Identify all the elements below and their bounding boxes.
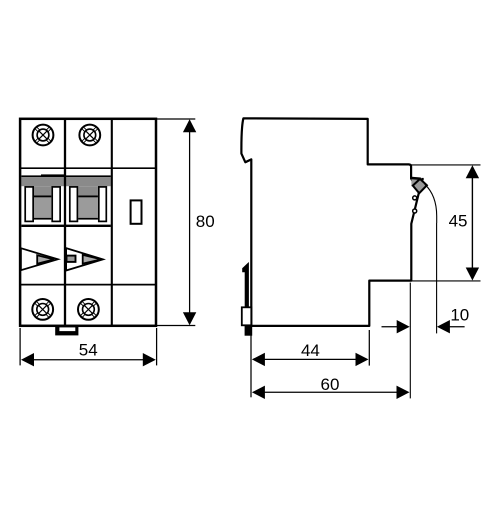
dimension 10: arrows bbox=[382, 320, 465, 333]
front view: DIN clip tab bottom bbox=[55, 326, 78, 336]
svg-text:60: 60 bbox=[321, 375, 340, 394]
front view: screw top-left bbox=[33, 125, 54, 146]
dimension 54: extension lines bbox=[19, 328, 21, 365]
dimension 80: extension lines bbox=[157, 118, 195, 120]
front view: position arrow pole2 bbox=[66, 248, 103, 270]
front view: row line lower bbox=[20, 284, 156, 286]
dimension 44: line and arrows bbox=[252, 353, 369, 366]
side view: DIN clip latch bbox=[242, 262, 249, 308]
front view: toggle bar pole2 right bbox=[99, 187, 107, 222]
front view: toggle bar pole1 right bbox=[52, 187, 60, 222]
front view: pole divider 2 bbox=[111, 119, 113, 326]
side view: DIN clip box bbox=[242, 307, 252, 325]
front view: indicator window bbox=[131, 200, 142, 223]
front view: handle tip segment pole1 bbox=[41, 174, 64, 176]
front view: screw top-right bbox=[79, 125, 100, 146]
side view: notch line bbox=[245, 159, 251, 162]
dimension 10: extension line bbox=[436, 223, 438, 333]
svg-text:80: 80 bbox=[196, 212, 215, 231]
dimension 54: line and arrows bbox=[21, 353, 156, 366]
dimension 44/60: left extension line bbox=[250, 330, 252, 398]
dimension 60: line and arrows bbox=[252, 386, 410, 399]
side view: terminal clamp wedge bbox=[411, 178, 419, 186]
front view: body outline bbox=[20, 119, 156, 326]
front view: pole divider 1 bbox=[64, 119, 66, 326]
dimension 45: line and arrows bbox=[466, 165, 479, 280]
dimension 60: right extension line bbox=[409, 283, 411, 399]
side view: terminal hole upper bbox=[413, 196, 417, 200]
front view: screw bottom-right bbox=[78, 299, 99, 320]
front view: handle center block pole2 bbox=[78, 186, 98, 219]
front view: toggle bar pole2 left bbox=[70, 187, 78, 222]
front view: row line upper bbox=[20, 167, 156, 169]
side view: DIN clip foot bbox=[245, 326, 253, 336]
svg-text:54: 54 bbox=[79, 341, 98, 360]
dimension 45: extension lines bbox=[409, 164, 481, 166]
side view: body outline bbox=[241, 118, 419, 326]
side view: terminal hole lower bbox=[413, 209, 417, 213]
front view: toggle bar pole1 left bbox=[25, 187, 33, 222]
front view: position arrow pole1 bbox=[21, 248, 58, 270]
svg-text:45: 45 bbox=[449, 211, 468, 230]
side view: terminal top bar bbox=[410, 177, 421, 180]
front view: handle center block pole1 bbox=[34, 186, 51, 219]
svg-text:44: 44 bbox=[301, 341, 320, 360]
side view: terminal dot bbox=[421, 178, 423, 180]
side view: wire guide arc bbox=[425, 184, 437, 223]
front view: handle band top line bbox=[21, 175, 110, 177]
svg-text:10: 10 bbox=[450, 306, 469, 325]
dimension 44: right extension line bbox=[368, 330, 370, 366]
front view: screw bottom-left bbox=[32, 299, 53, 320]
dimension 80: line and arrows bbox=[183, 119, 196, 325]
front view: band bottom line bbox=[21, 225, 110, 227]
front view: handle band stripe bbox=[21, 177, 110, 186]
side view: terminal screw diamond bbox=[413, 179, 427, 193]
